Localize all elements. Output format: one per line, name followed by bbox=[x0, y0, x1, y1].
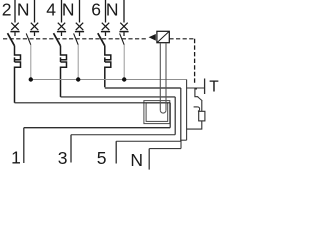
svg-text:1: 1 bbox=[11, 148, 21, 168]
svg-text:6: 6 bbox=[91, 0, 101, 20]
svg-text:4: 4 bbox=[46, 0, 56, 20]
svg-text:N: N bbox=[62, 0, 75, 20]
svg-text:N: N bbox=[17, 0, 30, 20]
svg-text:3: 3 bbox=[58, 148, 68, 168]
svg-text:5: 5 bbox=[97, 148, 107, 168]
svg-text:N: N bbox=[130, 150, 143, 170]
svg-text:N: N bbox=[106, 0, 119, 20]
svg-text:2: 2 bbox=[2, 0, 12, 20]
svg-text:T: T bbox=[209, 79, 219, 96]
